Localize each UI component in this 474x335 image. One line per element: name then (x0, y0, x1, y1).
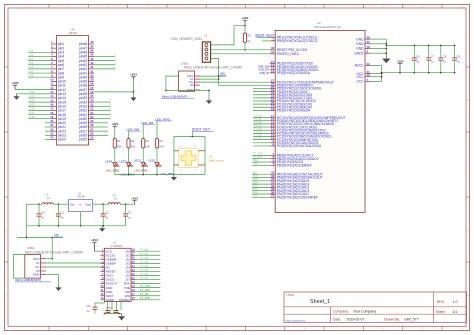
ground below USB1 (58, 285, 60, 287)
svg-text:IO13: IO13 (29, 94, 35, 98)
wire USB2 VCC +5V (200, 75, 226, 77)
svg-text:1u: 1u (60, 216, 63, 220)
resistor R3 200 (142, 138, 144, 140)
wire U5 GND down (80, 212, 82, 226)
capacitor C1 1u (57, 204, 59, 214)
ground below U1 (121, 314, 123, 317)
U1 control wires (135, 287, 160, 289)
junctions LED bus (128, 174, 130, 176)
ground right of U4 (132, 95, 134, 97)
wire PD6 long (219, 84, 270, 86)
junction C6 bottom (414, 72, 416, 74)
svg-text:R1: R1 (117, 139, 121, 143)
wire L2 to +3V3 (120, 203, 134, 205)
svg-text:LED4: LED4 (105, 160, 113, 164)
svg-text:FT_D5: FT_D5 (140, 268, 148, 272)
U4 right wires rows 4-7 with net labels (94, 55, 115, 57)
wire button bottom rail (174, 174, 205, 176)
svg-text:PB0: PB0 (253, 163, 258, 166)
U4 right wires rows 20-23 (94, 122, 108, 124)
wire VCC rail to caps (382, 72, 456, 74)
svg-text:J1: J1 (204, 33, 207, 37)
svg-text:C8: C8 (443, 55, 447, 59)
wire +5V horizontal (17, 236, 63, 238)
svg-text:R5: R5 (247, 33, 251, 37)
wire +5V rail left (26, 203, 42, 205)
switch S1 dip4_button (179, 148, 199, 167)
svg-text:1u: 1u (87, 309, 90, 313)
svg-text:+5V: +5V (54, 234, 61, 238)
svg-text:PDI/PDI_DATA: PDI/PDI_DATA (277, 52, 300, 56)
svg-text:FT_1B: FT_1B (140, 292, 148, 296)
svg-text:LED_WBM: LED_WBM (106, 168, 120, 172)
svg-text:IO15: IO15 (29, 103, 35, 107)
svg-text:PWREN: PWREN (119, 298, 130, 302)
svg-text:B: B (467, 98, 469, 102)
LED2 (141, 163, 145, 167)
wire LED cathode bus (114, 167, 116, 175)
svg-text:C9: C9 (457, 55, 461, 59)
U4 left pins pin1-pin24 with pin numbers (51, 43, 57, 45)
svg-text:30: 30 (367, 40, 371, 44)
wire J1 pin3 to U2 PDI (211, 53, 276, 55)
svg-text:+3V3: +3V3 (12, 81, 19, 85)
wire +3V3 to U1 VCC (94, 250, 100, 252)
svg-text:+3V3: +3V3 (111, 122, 118, 126)
wire +5V to USB1 VCC (51, 237, 53, 258)
svg-text:FT_D4: FT_D4 (140, 264, 148, 268)
wire USB2 D+ to J1 bus (200, 81, 219, 83)
svg-text:pin24: pin24 (58, 138, 66, 142)
ground below U2 GND bus (385, 55, 387, 58)
svg-text:1u: 1u (457, 60, 460, 64)
svg-text:200: 200 (117, 144, 122, 148)
crystal X1 plates (106, 310, 111, 312)
wire USB2 D- to J1 bus (200, 78, 219, 80)
junction USB2 shield (165, 90, 167, 92)
svg-text:G: G (79, 203, 81, 207)
svg-text:Sheet_1: Sheet_1 (310, 299, 330, 305)
svg-text:AD0: AD0 (253, 195, 258, 198)
junction C2 top (102, 203, 104, 205)
capacitor C7 1u decoupling (428, 45, 430, 58)
wire USB1 D- to U1 (46, 262, 104, 264)
svg-text:+3V3: +3V3 (397, 59, 404, 63)
U2 VCC bus (371, 65, 382, 67)
wire U5 out to L2 (93, 203, 109, 205)
wire crystal gnd rail (104, 313, 121, 315)
svg-text:1.0: 1.0 (453, 300, 458, 304)
svg-text:+3V3: +3V3 (91, 238, 98, 242)
ground left of U4 (16, 94, 18, 96)
wire button right branch (204, 137, 206, 175)
svg-text:LED_INFO: LED_INFO (155, 117, 171, 121)
svg-text:39: 39 (367, 62, 371, 66)
LED4 (113, 163, 117, 167)
svg-text:Your Company: Your Company (353, 310, 376, 314)
U2 PB wires (252, 154, 270, 156)
svg-text:4: 4 (195, 170, 196, 172)
svg-text:C0: C0 (128, 211, 132, 215)
wire button left branch (173, 137, 175, 175)
junction +3V3/R5 (244, 25, 246, 27)
U4 right pins pin48-pin25 with pin numbers (89, 43, 95, 45)
junction C7 bottom (428, 72, 430, 74)
svg-text:LED_3BM: LED_3BM (161, 172, 175, 176)
wire USB1 shield loop (14, 255, 25, 279)
svg-text:38: 38 (367, 36, 371, 40)
svg-text:1/1: 1/1 (453, 310, 458, 314)
junction C4 top (38, 203, 40, 205)
junction BOOT_KEY (192, 136, 194, 138)
wire R1 to LED4 (114, 148, 116, 163)
title block frame (284, 292, 467, 323)
U4 right wires rows 15-19 (94, 101, 110, 103)
svg-text:GND: GND (33, 273, 41, 277)
svg-text:C7: C7 (431, 55, 435, 59)
U4 left wires rows 20-24 (45, 122, 51, 124)
connector J1 CON_HEADER_1X04 (202, 42, 210, 62)
svg-text:34: 34 (271, 50, 275, 54)
svg-text:ATmega128A4U-AU: ATmega128A4U-AU (314, 25, 341, 29)
junction C1 top (58, 203, 60, 205)
svg-text:Micro USB-B(SMT): Micro USB-B(SMT) (16, 278, 42, 282)
svg-text:USB_ID: USB_ID (259, 71, 269, 75)
svg-text:IO8: IO8 (29, 74, 34, 78)
svg-text:ZIF48: ZIF48 (69, 31, 77, 35)
capacitor C2 1u (102, 204, 104, 214)
LED1 (155, 163, 159, 167)
capacitor C5 (94, 303, 96, 307)
svg-text:C2: C2 (105, 211, 109, 215)
svg-text:IO2: IO2 (29, 49, 34, 53)
junction J1 pin4 +5V (218, 75, 220, 77)
svg-text:FT245RL: FT245RL (111, 244, 123, 248)
svg-text:2019-02-07: 2019-02-07 (347, 318, 365, 322)
U1 data bus wires D0-D7 (135, 250, 160, 252)
svg-text:IO17: IO17 (29, 111, 35, 115)
svg-text:FT_RX0: FT_RX0 (140, 288, 151, 292)
resistor R4 200 (156, 138, 158, 140)
svg-text:LED_WB: LED_WB (127, 128, 140, 132)
U2 left pins with names and numbers (270, 36, 276, 38)
wire R3 to LED2 (142, 148, 144, 163)
LED3 (127, 163, 131, 167)
junctions GND rail (38, 225, 40, 227)
svg-text:IO3: IO3 (29, 53, 34, 57)
svg-text:10: 10 (271, 69, 275, 73)
svg-text:B: B (5, 98, 7, 102)
capacitor C9 1u decoupling (454, 45, 456, 58)
svg-text:200: 200 (131, 144, 136, 148)
svg-text:PE0(SYNC)OC0ASDA: PE0(SYNC)OC0ASDA (277, 71, 311, 75)
svg-text:GND2: GND2 (354, 51, 363, 55)
svg-text:+3V3: +3V3 (242, 16, 249, 20)
IC U4 ZIF48 socket (57, 36, 89, 146)
svg-text:LED_RB: LED_RB (141, 121, 153, 125)
resistor R1 200 (114, 138, 116, 140)
svg-text:12MHZ: 12MHZ (106, 308, 113, 310)
svg-text:tolik_577: tolik_577 (405, 318, 419, 322)
U2 PD wires (253, 87, 270, 89)
svg-text:AGND: AGND (106, 298, 116, 302)
svg-text:LED2: LED2 (134, 159, 142, 163)
svg-text:200: 200 (159, 144, 164, 148)
svg-text:VCC: VCC (357, 75, 365, 79)
svg-text:GND: GND (356, 37, 364, 41)
svg-text:1u: 1u (443, 60, 446, 64)
wire J1 pin4 to +5V node (211, 58, 219, 85)
IC U2 ATmega128A4U-AU (275, 30, 365, 212)
svg-text:200: 200 (146, 144, 151, 148)
svg-text:24: 24 (50, 136, 54, 140)
svg-text:FT_D3: FT_D3 (140, 260, 148, 264)
svg-text:Micro USB-B 5P-Female-SMT_C409: Micro USB-B 5P-Female-SMT_C40943 (25, 250, 83, 254)
junction +3V3 on VCC rail (399, 72, 401, 74)
wire BOOT_KEY label to button (191, 131, 193, 136)
svg-text:1u: 1u (128, 216, 131, 220)
svg-text:18: 18 (367, 45, 371, 49)
svg-text:GND: GND (356, 47, 364, 51)
junction R5 to RESET wire (244, 49, 246, 51)
svg-text:C: C (5, 163, 7, 167)
wire U2 XTAL2 (262, 40, 270, 42)
wire +5V feed vertical (25, 204, 27, 237)
svg-text:IO5: IO5 (29, 61, 34, 65)
connector USB2 Micro USB-B (179, 71, 195, 91)
wire J1 pin1 to +3V3 node (211, 26, 245, 45)
svg-text:R2: R2 (131, 139, 135, 143)
ground below button (173, 175, 175, 177)
svg-text:FT_PK5: FT_PK5 (140, 296, 150, 300)
svg-text:FT_D6: FT_D6 (140, 272, 148, 276)
svg-text:LED1: LED1 (148, 159, 156, 163)
svg-text:C: C (467, 163, 469, 167)
ground power section (101, 226, 103, 228)
inductor L1 1m (42, 203, 53, 204)
svg-text:BOOT_KEY: BOOT_KEY (256, 33, 274, 37)
U2 PC wires with FT_D labels (253, 117, 270, 119)
svg-text:IO4: IO4 (29, 57, 34, 61)
U2 PA wires (252, 173, 270, 175)
svg-text:https://easyeda.com: https://easyeda.com (286, 319, 306, 322)
wire GND rail bottom (26, 225, 125, 227)
svg-text:FT_D7: FT_D7 (140, 276, 148, 280)
svg-text:AVCC: AVCC (355, 64, 365, 68)
svg-text:37: 37 (271, 194, 275, 198)
wire R2 to LED3 (128, 148, 130, 163)
svg-text:IO7: IO7 (29, 69, 34, 73)
U2 GND bus (371, 38, 387, 40)
U4 left wires rows 13-19 with net labels (28, 93, 51, 95)
resistor R2 200 (128, 138, 130, 140)
svg-text:PB0(SYNC)ADC8AREF: PB0(SYNC)ADC8AREF (277, 164, 312, 168)
wire C5 top to U1 (103, 301, 105, 303)
svg-text:E: E (5, 293, 7, 297)
svg-text:IO14: IO14 (29, 98, 35, 102)
svg-text:R4: R4 (159, 139, 163, 143)
svg-text:Date:: Date: (333, 318, 341, 322)
svg-text:2: 2 (195, 146, 196, 148)
wire PD7 long (219, 81, 270, 83)
svg-text:C6: C6 (416, 55, 420, 59)
svg-text:Drawn By:: Drawn By: (384, 318, 400, 322)
junction C0 top (125, 203, 127, 205)
capacitor C4 1u (38, 204, 40, 214)
junction C9 bottom (454, 72, 456, 74)
svg-text:1u: 1u (105, 216, 108, 220)
svg-text:+5V: +5V (220, 72, 227, 76)
regulator U5 ML5B (69, 200, 93, 212)
svg-text:FT_D0: FT_D0 (140, 248, 148, 252)
svg-text:IO16: IO16 (29, 107, 35, 111)
svg-text:CON_HEADER_1X04: CON_HEADER_1X04 (171, 37, 203, 41)
svg-text:FT_D7: FT_D7 (254, 137, 262, 140)
junction +5V feed (26, 237, 28, 239)
wire J1 pin2 to U2 RESET (211, 49, 276, 51)
svg-text:IO18: IO18 (29, 115, 35, 119)
wire USB2 shield loop (166, 76, 209, 90)
junction C8 bottom (440, 72, 442, 74)
svg-text:LED3: LED3 (119, 160, 127, 164)
svg-text:D: D (467, 228, 469, 232)
wire U1 bottom pins (107, 301, 109, 310)
svg-text:+3V3: +3V3 (131, 197, 138, 201)
capacitor C6 1u decoupling (413, 45, 415, 58)
svg-text:PA0(SYNC)ADC0AC0AREF: PA0(SYNC)ADC0AC0AREF (277, 196, 318, 200)
capacitor C0 1u (125, 204, 127, 214)
inductor L2 1m (108, 203, 120, 205)
wire U2 XTAL1 (258, 36, 270, 38)
junction C7 top (428, 45, 430, 47)
svg-text:dip4_button: dip4_button (209, 158, 224, 162)
svg-text:VCC: VCC (357, 80, 365, 84)
capacitor C8 1u decoupling (440, 45, 442, 58)
svg-text:A: A (467, 33, 469, 37)
wire USB1 D+ to U1 (46, 266, 104, 268)
svg-text:1u: 1u (41, 216, 44, 220)
svg-text:Vin: Vin (70, 203, 75, 207)
wire GND rail to caps (386, 44, 455, 46)
svg-text:1: 1 (181, 146, 182, 148)
svg-text:REV:: REV: (437, 300, 445, 304)
svg-text:L1: L1 (46, 192, 49, 196)
junction C6 top (414, 45, 416, 47)
IC U1 FT245RL (104, 248, 131, 301)
svg-text:PD0(SYNC)OC0ASDA: PD0(SYNC)OC0ASDA (277, 109, 311, 113)
svg-text:FT_D1: FT_D1 (140, 252, 148, 256)
wire U1 RXF (135, 283, 160, 285)
svg-text:C4: C4 (41, 211, 45, 215)
svg-text:C1: C1 (60, 211, 64, 215)
svg-text:Micro USB-B(SMT): Micro USB-B(SMT) (162, 95, 188, 99)
svg-text:PR0(SYNC)XTAL2(TOSC2): PR0(SYNC)XTAL2(TOSC2) (277, 39, 318, 43)
svg-text:+3V3: +3V3 (130, 73, 137, 77)
U4 left wires rows 3-9 with net labels (28, 51, 51, 53)
wire USB1 VCC (46, 258, 52, 260)
wire U4 right to +3V3 and ground (94, 91, 133, 93)
svg-text:Sheet:: Sheet: (436, 310, 446, 314)
svg-text:Company:: Company: (333, 310, 349, 314)
svg-text:GND: GND (356, 42, 364, 46)
svg-text:FT_D2: FT_D2 (140, 256, 148, 260)
svg-text:IO12: IO12 (29, 90, 35, 94)
svg-text:PC0(SYNC)OC0ACDALSSDA: PC0(SYNC)OC0ACDALSSDA (277, 144, 322, 148)
junction C8 top (440, 45, 442, 47)
svg-text:A: A (5, 33, 7, 37)
svg-text:1u: 1u (431, 60, 434, 64)
wire USB1 GND (46, 275, 59, 286)
svg-text:ML5B: ML5B (78, 195, 85, 199)
connector USB1 Micro USB-B (25, 255, 41, 279)
svg-text:BOOT_KEY: BOOT_KEY (192, 128, 211, 132)
wire U4 pin12 to +3V3 (15, 89, 51, 91)
wire button top rail (174, 136, 205, 138)
svg-text:LED_RBM: LED_RBM (135, 168, 148, 172)
svg-text:1u: 1u (416, 60, 419, 64)
svg-text:FT_TX0: FT_TX0 (140, 284, 150, 288)
svg-text:25: 25 (90, 136, 94, 140)
wire U4 pin13 to ground (17, 93, 52, 95)
wire L1 to U5 (53, 203, 68, 205)
wire R4 to LED1 (156, 148, 158, 163)
svg-text:pin25: pin25 (79, 138, 87, 142)
svg-text:Micro USB-B 5P-Female-SMT_C409: Micro USB-B 5P-Female-SMT_C40940 (184, 66, 242, 70)
svg-text:19: 19 (367, 73, 371, 77)
svg-text:C5: C5 (87, 304, 91, 308)
ground below USB2 (208, 98, 210, 100)
resistor R5 1k pull-up (244, 26, 246, 33)
U2 right power pins (365, 38, 371, 40)
svg-text:Vout: Vout (85, 203, 91, 207)
svg-text:18: 18 (271, 107, 275, 111)
svg-text:IO6: IO6 (29, 65, 34, 69)
wire USB2 GND down (208, 90, 210, 98)
svg-text:L2: L2 (113, 193, 116, 197)
svg-text:R3: R3 (146, 139, 150, 143)
svg-text:E: E (467, 293, 469, 297)
junction C9 top (454, 45, 456, 47)
svg-text:3: 3 (181, 170, 182, 172)
svg-text:TITLE:: TITLE: (286, 293, 295, 297)
svg-text:D: D (5, 228, 7, 232)
